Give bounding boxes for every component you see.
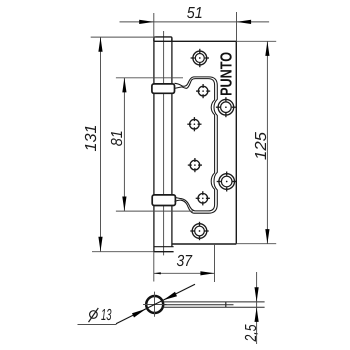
screw hole 8 large	[190, 222, 208, 240]
inner leaf contour outer line	[175, 77, 218, 213]
dim 37 left arrow	[154, 272, 161, 274]
dim 125 extension top	[236, 40, 276, 42]
circle horizontal centerline	[143, 304, 166, 306]
screw hole 4 small	[187, 117, 201, 131]
knuckle band bottom	[152, 195, 175, 206]
dia leader shoulder	[78, 324, 117, 326]
dim 2,5 top arrow	[255, 287, 259, 302]
side view bar top line	[163, 301, 265, 303]
screw hole 6 small	[196, 191, 210, 205]
plate bottom edge	[172, 243, 236, 245]
dim 131 extension top	[91, 36, 156, 38]
side view bar middle line	[163, 304, 234, 306]
dim 51 extension line right	[236, 12, 238, 41]
plate top edge	[154, 40, 236, 42]
svg-text:2,5: 2,5	[243, 324, 260, 342]
dim 51 left arrow	[139, 20, 154, 24]
barrel bottom edge	[154, 251, 174, 253]
inner leaf contour inner line	[175, 79, 215, 211]
dim 81 line	[123, 78, 125, 211]
dim 81 extension bottom	[116, 210, 193, 212]
side view bar bottom line	[163, 306, 265, 308]
dim 81 top arrow	[122, 78, 126, 93]
svg-text:125: 125	[253, 132, 270, 160]
screw hole 1 large	[191, 49, 209, 67]
svg-text:PUNTO: PUNTO	[219, 52, 236, 96]
svg-text:131: 131	[83, 125, 100, 152]
barrel bottom cap line	[154, 246, 174, 248]
screw hole 7 large	[217, 172, 237, 192]
dim 2,5 line	[256, 272, 258, 344]
dim 81 bottom arrow	[122, 197, 126, 212]
dim 125 extension bottom	[236, 243, 276, 245]
dim 2,5 bottom arrow	[255, 307, 259, 322]
dim 131 extension bottom	[92, 251, 154, 253]
barrel end circle (Ø13)	[146, 296, 163, 313]
svg-text:13: 13	[101, 307, 112, 324]
dia upper-right arrow	[163, 292, 177, 300]
screw hole 5 small	[188, 158, 202, 172]
dim 131 top arrow	[98, 37, 102, 52]
pin centerline	[163, 31, 165, 255]
screw hole 3 large	[216, 97, 236, 117]
plate right edge	[235, 41, 237, 244]
dia lower-left arrow	[132, 309, 146, 318]
dim 51 right arrow	[237, 20, 252, 24]
barrel top cap	[154, 37, 172, 41]
dim 125 line	[266, 41, 268, 243]
barrel right edge	[171, 39, 173, 247]
circle vertical centerline	[154, 292, 156, 317]
dia dimension diagonal line	[116, 284, 195, 324]
dia symbol circle	[89, 308, 99, 322]
dim 37 right arrow	[200, 271, 214, 275]
dim 81 extension top	[116, 77, 183, 79]
knuckle band top	[152, 84, 175, 93]
svg-text:81: 81	[109, 130, 126, 146]
dim 51 line	[120, 21, 270, 23]
screw hole 2 small	[196, 84, 210, 98]
side view bar end	[225, 302, 227, 307]
dim 125 top arrow	[265, 41, 269, 56]
dim 51 extension line left	[153, 13, 155, 37]
barrel left edge	[153, 39, 155, 252]
svg-text:51: 51	[187, 5, 203, 22]
dim 37 extension left	[153, 252, 155, 282]
svg-text:37: 37	[177, 253, 193, 270]
dim 37 extension right	[214, 244, 216, 282]
dim 125 bottom arrow	[265, 229, 269, 244]
dim 37 line	[154, 272, 215, 274]
dim 131 line	[100, 37, 102, 251]
dim 131 bottom arrow	[98, 237, 102, 252]
